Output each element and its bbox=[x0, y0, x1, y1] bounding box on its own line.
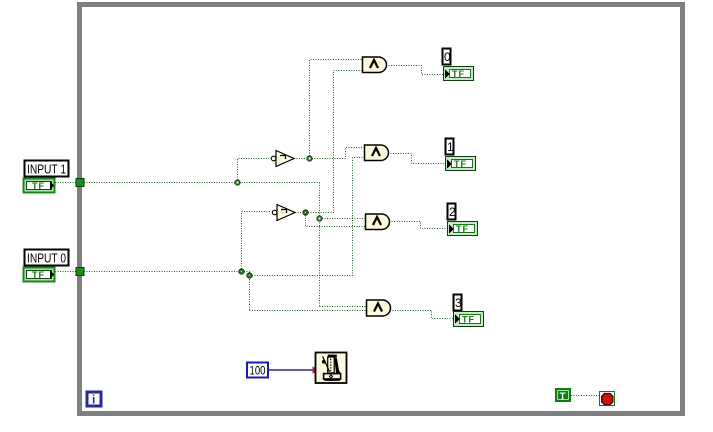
wire AND3 output to indicator 2 bbox=[389, 222, 448, 229]
indicator 1 boolean terminal TF bbox=[446, 157, 476, 171]
junction B at (249,275) bbox=[247, 273, 252, 278]
tunnel INPUT1 on loop border bbox=[76, 179, 84, 187]
wire B to AND4 bottom input bbox=[250, 310, 368, 312]
wire A to AND3 top input bbox=[320, 218, 367, 220]
wire notB to AND3 bottom input bbox=[306, 213, 367, 227]
iteration terminal i bbox=[87, 392, 101, 407]
svg-text:INPUT 1: INPUT 1 bbox=[27, 162, 66, 177]
svg-text:TF: TF bbox=[32, 181, 45, 191]
wire notB: NOT2 out to junction bbox=[295, 212, 306, 214]
indicator 2 boolean terminal TF bbox=[448, 222, 478, 236]
wire notA to AND2 top input bbox=[310, 148, 366, 159]
wire AND4 output to indicator 3 bbox=[390, 311, 454, 319]
svg-text:100: 100 bbox=[250, 364, 266, 378]
svg-text:0: 0 bbox=[444, 50, 451, 64]
indicator 1 label bbox=[446, 139, 455, 155]
junction A at (319,218) bbox=[317, 216, 322, 221]
INPUT 1 label bbox=[25, 161, 69, 177]
wire T to stop terminal bbox=[571, 395, 600, 397]
svg-text:INPUT 0: INPUT 0 bbox=[27, 251, 66, 266]
junction notB at (305,212) bbox=[303, 210, 308, 215]
indicator 3 label bbox=[454, 295, 463, 311]
AND gate 3 bbox=[366, 214, 390, 230]
indicator 0 label bbox=[443, 49, 452, 65]
INPUT 0 boolean control terminal TF bbox=[24, 268, 55, 282]
junction A at (237,182) bbox=[235, 180, 240, 185]
AND gate 4 bbox=[367, 300, 391, 316]
wait (ms) function metronome icon bbox=[316, 353, 347, 384]
loop condition stop terminal bbox=[600, 392, 615, 406]
wire notA riser to AND1 top input bbox=[310, 60, 364, 159]
indicator 3 boolean terminal TF bbox=[454, 312, 484, 327]
wire A down riser x=319 bbox=[319, 183, 321, 307]
junction B at (241,271) bbox=[239, 269, 244, 274]
indicator 2 label bbox=[448, 204, 457, 220]
svg-text:TF: TF bbox=[462, 315, 475, 325]
svg-text:T: T bbox=[560, 392, 566, 403]
junction notA at (309,158) bbox=[307, 156, 312, 161]
INPUT 1 boolean control terminal TF bbox=[24, 179, 55, 193]
wire B step down bbox=[249, 272, 251, 311]
wire notB riser to AND1 bottom input bbox=[306, 71, 364, 213]
svg-text:1: 1 bbox=[447, 140, 454, 154]
wire A riser up to NOT1 bbox=[238, 159, 270, 183]
coercion arrow at wait input bbox=[313, 366, 320, 373]
svg-text:TF: TF bbox=[32, 270, 45, 280]
wire B riser up to NOT2 bbox=[242, 212, 271, 272]
wire B net: tunnel to junction bbox=[84, 271, 250, 273]
AND gate 1 bbox=[363, 57, 387, 73]
wire A to AND4 top input bbox=[320, 306, 368, 308]
numeric constant 100 bbox=[247, 363, 268, 378]
wire INPUT0 to tunnel bbox=[55, 271, 77, 273]
AND gate 2 bbox=[365, 145, 389, 161]
NOT gate 1 bbox=[271, 151, 294, 167]
svg-text:3: 3 bbox=[455, 296, 462, 310]
svg-text:TF: TF bbox=[454, 159, 467, 169]
wire B to AND2 bottom input bbox=[250, 158, 366, 276]
indicator 0 boolean terminal TF bbox=[444, 67, 474, 81]
wire AND2 output to indicator 1 bbox=[388, 154, 446, 164]
tunnel INPUT0 on loop border bbox=[76, 268, 84, 276]
wire INPUT1 to tunnel bbox=[55, 182, 77, 184]
svg-text:2: 2 bbox=[449, 205, 456, 219]
wire AND1 output to indicator 0 bbox=[386, 66, 444, 75]
wire notA: NOT1 out to junction bbox=[294, 158, 310, 160]
NOT gate 2 bbox=[272, 205, 295, 221]
svg-text:TF: TF bbox=[452, 69, 465, 79]
wire A net: tunnel to junction to riser bbox=[84, 182, 320, 184]
INPUT 0 label bbox=[25, 250, 69, 266]
boolean constant T bbox=[555, 388, 571, 403]
numeric wire 100 to wait bbox=[268, 369, 315, 371]
svg-text:TF: TF bbox=[456, 224, 469, 234]
svg-text:i: i bbox=[92, 393, 95, 407]
